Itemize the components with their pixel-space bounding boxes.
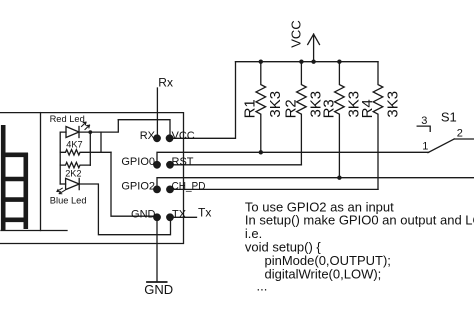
pin VCC: [166, 134, 174, 142]
svg-text:In setup() make GPIO0 an outpu: In setup() make GPIO0 an output and LOW: [245, 213, 474, 228]
svg-text:2K2: 2K2: [65, 168, 81, 178]
svg-text:Red Led: Red Led: [50, 114, 85, 124]
wire: S1 pin 2 to edge: [454, 138, 474, 140]
rail junction dots: [259, 60, 263, 64]
pin GND: [153, 213, 161, 221]
wire: blue LED anode stub: [60, 183, 65, 185]
wire: GPIO0 to R1 and switch: [157, 152, 429, 165]
svg-text:R4: R4: [359, 99, 376, 118]
svg-text:R1: R1: [242, 99, 259, 118]
resistor R3: [335, 62, 345, 178]
resistor 2K2: [60, 162, 90, 167]
svg-text:RX: RX: [140, 130, 156, 142]
wire: 4K7 to GND pin: [111, 152, 155, 216]
wire: node A branch down to 4K7 line: [100, 132, 102, 152]
VCC rail: [236, 61, 379, 63]
svg-text:GND: GND: [131, 209, 156, 221]
wire: LED cathode to corner: [79, 120, 118, 132]
pin CH_PD: [166, 186, 174, 194]
pin GPIO2: [153, 186, 161, 194]
svg-text:4K7: 4K7: [66, 140, 82, 150]
VCC arrow: [308, 34, 320, 62]
svg-text:GPIO2: GPIO2: [121, 181, 155, 193]
svg-text:R2: R2: [282, 99, 299, 118]
junction R3/GPIO2: [337, 176, 341, 180]
wire: GND pin down: [156, 217, 158, 282]
svg-text:VCC: VCC: [172, 130, 195, 142]
junction node A: [88, 130, 92, 134]
antenna feed wire: [40, 113, 42, 231]
antenna base line: [1, 230, 67, 232]
pin RST: [166, 161, 174, 169]
blue LED D2: [57, 178, 79, 193]
wire: VCC pin to rail: [170, 62, 236, 139]
red LED D1: [66, 122, 90, 137]
svg-text:GND: GND: [144, 282, 173, 297]
wire: GPIO2 to R3 and edge: [157, 178, 474, 190]
note text block: [245, 199, 474, 293]
svg-text:RST: RST: [172, 156, 194, 168]
svg-text:...: ...: [257, 279, 268, 294]
wire: CH_PD to R4: [170, 188, 378, 190]
wire: LED anode / left node vertical: [60, 132, 66, 184]
resistor 4K7: [60, 150, 111, 155]
junction R1/GPIO0: [259, 150, 263, 154]
wire: RST to R2: [170, 164, 301, 166]
svg-text:CH_PD: CH_PD: [172, 181, 206, 193]
resistor R4: [373, 62, 383, 190]
switch S1 lever: [428, 139, 454, 153]
wire: 2K2 riser to node A: [89, 132, 91, 165]
PCB antenna: [1, 125, 28, 230]
Rx stub wire: [156, 88, 158, 138]
svg-text:Blue Led: Blue Led: [50, 196, 87, 206]
switch S1 contact 3 stub: [417, 126, 430, 131]
svg-text:S1: S1: [441, 109, 457, 124]
svg-text:R3: R3: [320, 99, 337, 118]
pin TX: [166, 213, 174, 221]
pin GPIO0: [153, 161, 161, 169]
wire to VCC pin: [118, 120, 170, 139]
svg-text:Tx: Tx: [198, 206, 211, 220]
svg-text:3: 3: [421, 115, 427, 127]
wire: blue LED cathode to TX pin: [79, 184, 170, 235]
svg-text:Rx: Rx: [158, 76, 173, 90]
ESP-01 module outline: [0, 113, 184, 244]
svg-text:1: 1: [422, 140, 428, 152]
wire: TX pin to Tx stub: [170, 216, 197, 218]
svg-text:GPIO0: GPIO0: [121, 156, 155, 168]
ground symbol: [147, 281, 167, 283]
pin RX: [153, 134, 161, 142]
svg-text:TX: TX: [172, 209, 187, 221]
svg-text:2: 2: [457, 128, 463, 140]
resistor R1: [256, 62, 266, 153]
svg-text:3K3: 3K3: [384, 91, 401, 118]
svg-text:VCC: VCC: [288, 20, 303, 47]
resistor R2: [297, 62, 307, 165]
svg-text:digitalWrite(0,LOW);: digitalWrite(0,LOW);: [265, 266, 382, 281]
